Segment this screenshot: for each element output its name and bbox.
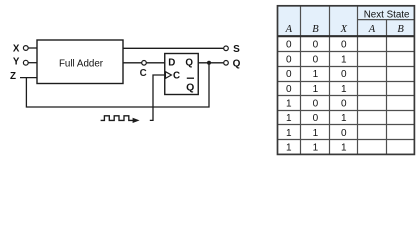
- wire Z to adder: [20, 77, 37, 79]
- svg-text:0: 0: [313, 98, 319, 109]
- svg-text:0: 0: [341, 40, 347, 51]
- wire X to adder: [28, 47, 37, 49]
- svg-text:0: 0: [341, 128, 347, 139]
- svg-text:D: D: [168, 57, 175, 68]
- svg-text:Q: Q: [233, 58, 241, 69]
- svg-text:Full Adder: Full Adder: [59, 58, 104, 69]
- node C terminal: [140, 61, 147, 79]
- input terminal Y: [13, 57, 28, 68]
- table data digits: [286, 40, 347, 154]
- svg-text:S: S: [233, 44, 240, 55]
- svg-text:0: 0: [286, 40, 292, 51]
- svg-text:1: 1: [286, 113, 292, 124]
- input terminal X: [13, 43, 28, 54]
- svg-text:1: 1: [313, 84, 319, 95]
- full adder U1: [37, 40, 123, 84]
- junction dot on Q wire: [207, 61, 211, 65]
- wire clock to flip-flop C input: [150, 75, 165, 120]
- svg-text:C: C: [173, 70, 180, 81]
- D flip-flop U2: [165, 54, 199, 95]
- clock waveform source: [101, 116, 140, 123]
- svg-text:A: A: [285, 24, 293, 35]
- svg-text:X: X: [13, 43, 20, 54]
- svg-text:1: 1: [341, 54, 347, 65]
- svg-text:0: 0: [313, 113, 319, 124]
- svg-text:A: A: [368, 24, 376, 35]
- table grid inner lines: [278, 6, 415, 155]
- svg-text:Q: Q: [185, 57, 193, 68]
- svg-text:B: B: [312, 24, 319, 35]
- table outer border: [278, 6, 415, 155]
- svg-text:0: 0: [341, 98, 347, 109]
- svg-text:1: 1: [313, 143, 319, 154]
- truth table: [278, 6, 415, 155]
- svg-text:0: 0: [286, 84, 292, 95]
- svg-text:0: 0: [341, 69, 347, 80]
- svg-text:Next State: Next State: [364, 9, 410, 20]
- svg-text:1: 1: [286, 143, 292, 154]
- svg-text:1: 1: [341, 143, 347, 154]
- svg-text:1: 1: [341, 84, 347, 95]
- wire Y to adder: [28, 62, 37, 64]
- svg-text:1: 1: [313, 69, 319, 80]
- svg-text:C: C: [140, 68, 147, 79]
- svg-text:X: X: [340, 24, 348, 35]
- svg-text:1: 1: [286, 98, 292, 109]
- wire adder carry to node C: [123, 62, 142, 64]
- svg-text:Z: Z: [10, 71, 16, 82]
- svg-text:0: 0: [313, 40, 319, 51]
- svg-text:Q: Q: [186, 82, 194, 94]
- svg-text:0: 0: [313, 54, 319, 65]
- svg-text:0: 0: [286, 69, 292, 80]
- wire node C to D input: [147, 62, 165, 64]
- svg-text:B: B: [397, 24, 404, 35]
- wire feedback Q to Z: [26, 64, 209, 108]
- table header bottom rule: [278, 35, 415, 37]
- svg-text:Y: Y: [13, 57, 20, 68]
- svg-text:0: 0: [286, 54, 292, 65]
- table header fill: [278, 6, 415, 37]
- svg-text:1: 1: [313, 128, 319, 139]
- wire S output: [123, 47, 223, 49]
- svg-text:1: 1: [341, 113, 347, 124]
- output terminal Q: [224, 58, 241, 69]
- wire Q output: [198, 62, 223, 64]
- svg-text:1: 1: [286, 128, 292, 139]
- output terminal S: [224, 44, 240, 55]
